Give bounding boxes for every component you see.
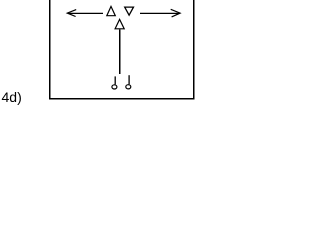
right source circle [126, 85, 131, 89]
arrow shaft [119, 29, 121, 74]
down triangle marker (nabla) [125, 7, 134, 15]
enclosure box (open at top, cropped) [49, 0, 194, 99]
left source stem [114, 76, 116, 84]
right arrow (double-headed arrow, right half) [140, 9, 180, 17]
right source stem [128, 75, 130, 84]
middle up-arrowhead (open triangle) [115, 19, 124, 28]
left source circle [112, 85, 117, 89]
svg-text:4d): 4d) [2, 89, 22, 105]
left arrow (double-headed arrow, left half) [67, 10, 103, 17]
up triangle marker (delta) [107, 6, 116, 15]
